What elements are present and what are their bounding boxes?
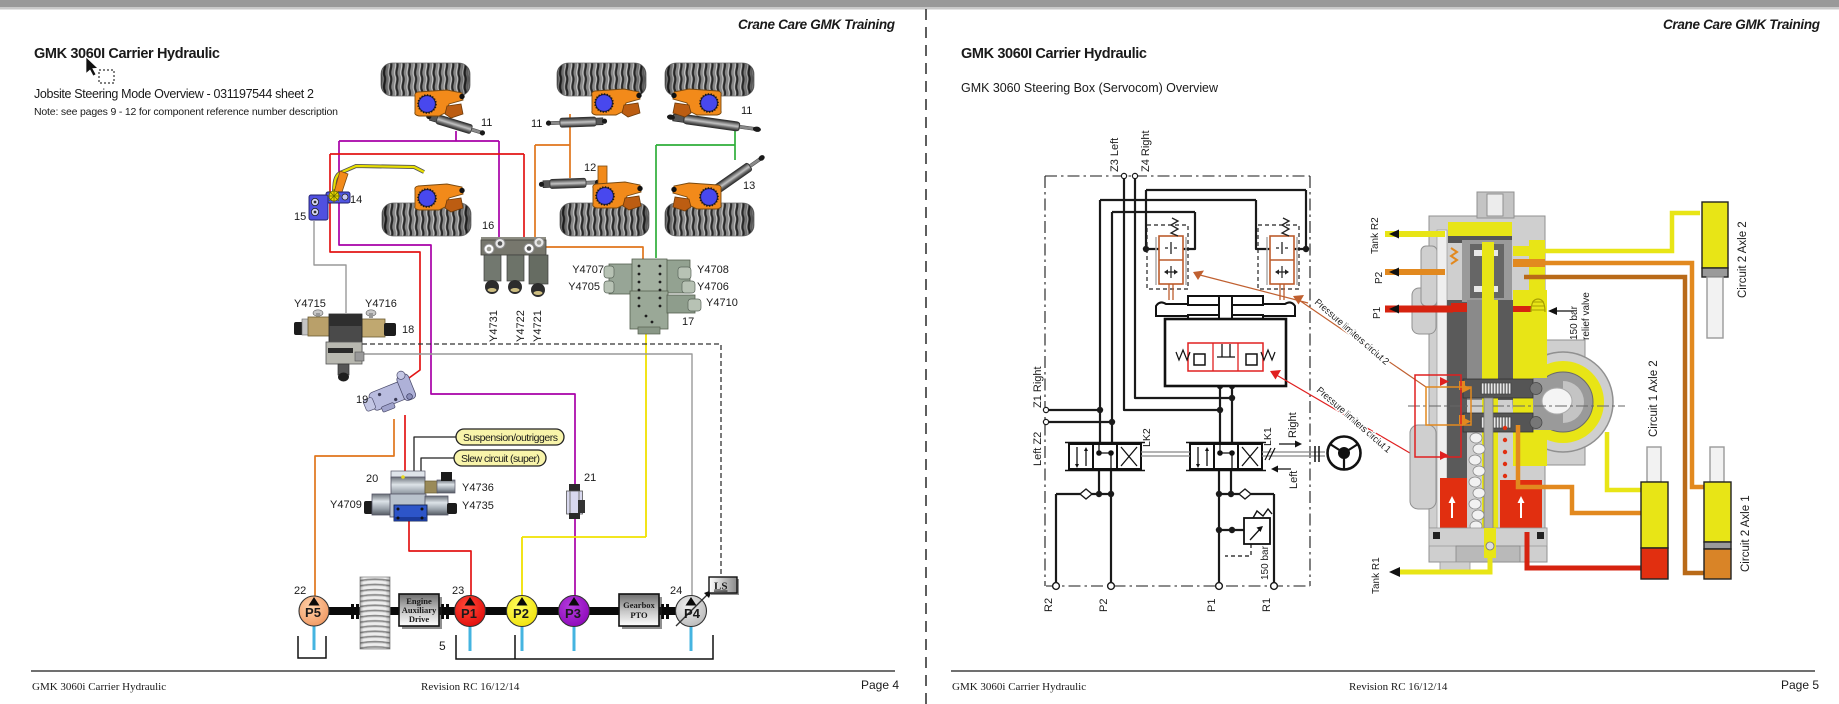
svg-text:P2: P2 bbox=[513, 606, 529, 621]
svg-text:Z4 Right: Z4 Right bbox=[1140, 130, 1152, 172]
svg-text:PTO: PTO bbox=[630, 610, 648, 620]
svg-text:Z1 Right: Z1 Right bbox=[1032, 366, 1044, 408]
svg-text:Circuit 1 Axle 2: Circuit 1 Axle 2 bbox=[1648, 360, 1660, 437]
svg-text:Left Z2: Left Z2 bbox=[1032, 432, 1044, 466]
svg-text:14: 14 bbox=[350, 194, 362, 206]
svg-text:Y4709: Y4709 bbox=[330, 499, 362, 511]
svg-text:11: 11 bbox=[481, 117, 492, 129]
svg-text:19: 19 bbox=[356, 394, 368, 406]
svg-text:Y4722: Y4722 bbox=[515, 310, 527, 342]
svg-text:Revision RC 16/12/14: Revision RC 16/12/14 bbox=[421, 681, 520, 693]
svg-text:Revision RC 16/12/14: Revision RC 16/12/14 bbox=[1349, 681, 1448, 693]
svg-text:Circuit 2 Axle 2: Circuit 2 Axle 2 bbox=[1737, 221, 1749, 298]
svg-text:Jobsite Steering Mode Overview: Jobsite Steering Mode Overview - 0311975… bbox=[34, 87, 314, 101]
svg-text:Left: Left bbox=[1288, 471, 1300, 489]
svg-text:Y4710: Y4710 bbox=[706, 297, 738, 309]
svg-text:Y4705: Y4705 bbox=[568, 281, 600, 293]
svg-text:Y4707: Y4707 bbox=[572, 264, 604, 276]
svg-text:16: 16 bbox=[482, 220, 494, 232]
svg-text:P1: P1 bbox=[1372, 306, 1383, 319]
svg-text:Y4708: Y4708 bbox=[697, 264, 729, 276]
svg-text:P3: P3 bbox=[565, 606, 581, 621]
svg-text:P5: P5 bbox=[305, 605, 321, 620]
svg-text:Crane Care GMK Training: Crane Care GMK Training bbox=[1663, 17, 1821, 32]
svg-text:Y4736: Y4736 bbox=[462, 482, 494, 494]
svg-text:Gearbox: Gearbox bbox=[623, 600, 655, 610]
svg-text:22: 22 bbox=[294, 585, 306, 597]
svg-text:Suspension/outriggers: Suspension/outriggers bbox=[463, 432, 558, 444]
svg-text:Circuit 2 Axle 1: Circuit 2 Axle 1 bbox=[1740, 495, 1752, 572]
svg-text:P4: P4 bbox=[684, 606, 701, 621]
svg-text:P2: P2 bbox=[1374, 271, 1385, 284]
svg-text:Right: Right bbox=[1287, 412, 1299, 438]
svg-text:11: 11 bbox=[531, 118, 542, 130]
svg-text:23: 23 bbox=[452, 585, 464, 597]
svg-text:11: 11 bbox=[741, 105, 752, 117]
svg-text:P1: P1 bbox=[1206, 599, 1218, 612]
svg-text:Slew circuit (super): Slew circuit (super) bbox=[461, 453, 540, 465]
svg-text:R1: R1 bbox=[1261, 598, 1273, 612]
svg-text:Y4715: Y4715 bbox=[294, 298, 326, 310]
svg-text:P2: P2 bbox=[1098, 599, 1110, 612]
svg-text:15: 15 bbox=[294, 211, 306, 223]
svg-text:24: 24 bbox=[670, 585, 682, 597]
svg-text:Crane Care GMK Training: Crane Care GMK Training bbox=[738, 17, 896, 32]
svg-text:GMK 3060I Carrier Hydraulic: GMK 3060I Carrier Hydraulic bbox=[34, 46, 220, 62]
svg-text:Z3 Left: Z3 Left bbox=[1109, 138, 1121, 172]
svg-text:Y4731: Y4731 bbox=[488, 310, 500, 342]
svg-text:Y4735: Y4735 bbox=[462, 500, 494, 512]
svg-text:LS: LS bbox=[714, 581, 727, 593]
svg-text:17: 17 bbox=[682, 316, 694, 328]
svg-text:Page 4: Page 4 bbox=[861, 678, 899, 692]
svg-text:20: 20 bbox=[366, 473, 378, 485]
svg-text:Y4721: Y4721 bbox=[532, 310, 544, 342]
svg-text:LK1: LK1 bbox=[1262, 427, 1274, 446]
svg-text:GMK 3060I Carrier Hydraulic: GMK 3060I Carrier Hydraulic bbox=[961, 46, 1147, 62]
svg-text:150 bar: 150 bar bbox=[1260, 545, 1271, 580]
svg-text:18: 18 bbox=[402, 324, 414, 336]
svg-text:LK2: LK2 bbox=[1141, 428, 1153, 447]
svg-text:GMK 3060i Carrier Hydraulic: GMK 3060i Carrier Hydraulic bbox=[952, 681, 1086, 693]
svg-text:GMK 3060i Carrier Hydraulic: GMK 3060i Carrier Hydraulic bbox=[32, 681, 166, 693]
svg-text:Page 5: Page 5 bbox=[1781, 678, 1819, 692]
svg-text:Tank R1: Tank R1 bbox=[1371, 557, 1382, 594]
svg-text:R2: R2 bbox=[1043, 598, 1055, 612]
svg-text:Drive: Drive bbox=[409, 614, 430, 624]
svg-text:12: 12 bbox=[584, 162, 596, 174]
svg-text:P1: P1 bbox=[461, 606, 477, 621]
svg-text:21: 21 bbox=[584, 472, 596, 484]
svg-text:Tank R2: Tank R2 bbox=[1370, 217, 1381, 254]
svg-text:Y4706: Y4706 bbox=[697, 281, 729, 293]
svg-text:Note: see pages 9 - 12 for com: Note: see pages 9 - 12 for component ref… bbox=[34, 106, 338, 118]
svg-text:GMK 3060 Steering Box (Servoc: GMK 3060 Steering Box (Servocom) Overvie… bbox=[961, 81, 1219, 95]
svg-text:13: 13 bbox=[743, 180, 755, 192]
svg-text:5: 5 bbox=[439, 639, 446, 653]
svg-text:Y4716: Y4716 bbox=[365, 298, 397, 310]
